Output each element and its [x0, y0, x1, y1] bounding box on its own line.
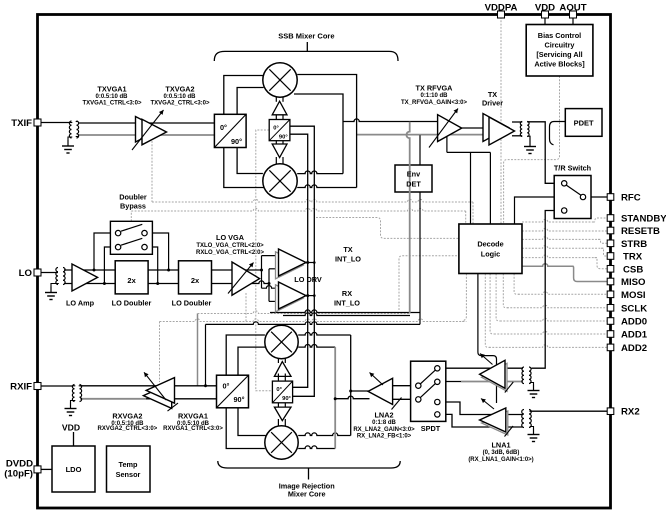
- wire TX top mixer output Q to vertical bus: [294, 94, 343, 174]
- wire LO DRV TX output stub: [305, 262, 314, 264]
- wire doubler bypass right upper: [145, 233, 169, 270]
- wire RX differential gray y=398.8: [80, 398, 146, 400]
- pin DVDD: [34, 466, 41, 473]
- wire T/R switch control from decode: [515, 197, 555, 224]
- svg-text:RX_LNA2_FB<1:0>: RX_LNA2_FB<1:0>: [357, 434, 412, 440]
- svg-text:RX: RX: [342, 289, 352, 298]
- wire SSB LO quadrature link (gray dashed vertical x=255.8): [256, 130, 273, 391]
- svg-text:MISO: MISO: [621, 277, 646, 288]
- svg-text:MOSI: MOSI: [621, 290, 646, 301]
- svg-text:Driver: Driver: [482, 99, 503, 108]
- wire LO differential lower y=283.5: [64, 281, 269, 284]
- mixer image rejection top: [265, 325, 298, 358]
- brace SSB mixer core: [214, 51, 398, 61]
- svg-text:Decode: Decode: [477, 240, 503, 249]
- pin right edge y=411.2: [607, 408, 614, 415]
- svg-text:ADD0: ADD0: [621, 317, 647, 328]
- wire black line y=315.5: [283, 313, 410, 316]
- svg-text:ADD2: ADD2: [621, 343, 647, 354]
- ground LNA1 transformer: [533, 429, 535, 435]
- wire ADD2 to decode: [485, 274, 491, 348]
- wire TX top mixer output I to vertical bus: [297, 75, 356, 188]
- block Env DET: [395, 165, 432, 192]
- svg-text:Active Blocks]: Active Blocks]: [534, 60, 585, 69]
- svg-text:PDET: PDET: [574, 119, 594, 128]
- wire CSB to decode: [522, 255, 597, 258]
- wire T/R switch to RFC pin: [586, 196, 608, 198]
- wire SSB output black main y=121.5: [343, 119, 438, 122]
- pin right edge y=218: [607, 215, 614, 222]
- amplifier TX Driver double triangle: [483, 114, 509, 142]
- pin right edge y=334: [607, 331, 614, 338]
- wire RX top mixer RF input y=347.1: [298, 345, 335, 348]
- wire corner leg x=205.5 down to RX line: [205, 324, 207, 385]
- amplifier RXVGA1/RXVGA2 double triangle: [143, 383, 171, 409]
- wire TX bottom mixer to I bus y=187.5: [297, 185, 356, 188]
- pin RXIF: [34, 383, 41, 390]
- wire RXVGA2 gain control leg (gray dashed): [159, 322, 161, 383]
- svg-text:RX_LNA2_GAIN<3:0>: RX_LNA2_GAIN<3:0>: [353, 427, 415, 433]
- svg-text:TXVGA1_CTRL<3:0>: TXVGA1_CTRL<3:0>: [82, 101, 142, 107]
- svg-text:TXIF: TXIF: [11, 118, 32, 129]
- wire RXVGA1 gain control leg (gray solid): [197, 314, 199, 386]
- wire SPDT to LNA2 upper: [393, 385, 416, 387]
- svg-text:0:0.5:10 dB: 0:0.5:10 dB: [95, 94, 128, 100]
- transformer RX upper input: [522, 367, 524, 384]
- arrow LO VGA gain: [228, 263, 254, 294]
- pin right edge y=294.3: [607, 291, 614, 298]
- wire LO pin to transformer: [41, 272, 58, 274]
- wire SCLK to decode: [503, 274, 509, 308]
- amplifier LO Amp triangle: [72, 264, 98, 291]
- svg-text:RXVGA2: RXVGA2: [112, 412, 142, 421]
- amplifier LO VGA triangle: [232, 262, 260, 295]
- wire ADD1 to decode: [490, 274, 496, 335]
- svg-text:Bypass: Bypass: [120, 202, 146, 211]
- RX LO quadrature box 0/90: [272, 381, 292, 403]
- svg-text:TXVGA1: TXVGA1: [97, 85, 126, 94]
- wire control bus TXVGA to decode logic y=203.5: [152, 199, 473, 202]
- wire DVDD pin to LDO: [41, 468, 52, 470]
- wire RX amp to SPDT lower black part: [440, 381, 461, 383]
- pin right edge y=243.3: [607, 240, 614, 247]
- wire long control line decode to RXVGA y=321.5: [462, 274, 466, 322]
- svg-text:RFC: RFC: [621, 193, 641, 204]
- svg-text:Bias Control: Bias Control: [538, 31, 581, 40]
- T/R switch poles: [562, 181, 567, 186]
- wire RXIF pin to transformer: [41, 385, 73, 387]
- wire RX 0/90 bottom port to lower mixer far: [226, 408, 265, 449]
- transformer TXIF input: [69, 121, 71, 138]
- wire TX 0/90 splitter bottom port to lower mixer far: [224, 148, 264, 188]
- wire TX driver output to transformer: [512, 121, 522, 123]
- SSB LO buffer up triangle: [275, 96, 277, 102]
- svg-text:90°: 90°: [231, 137, 242, 146]
- svg-text:SSB Mixer Core: SSB Mixer Core: [278, 32, 334, 41]
- block Decode Logic: [459, 224, 522, 274]
- svg-text:2x: 2x: [127, 276, 136, 285]
- wire LNA2 output upper: [351, 390, 369, 392]
- pin right edge y=256: [607, 253, 614, 260]
- slash LNA2 feedback: [392, 398, 402, 410]
- ground RX upper transformer: [533, 385, 535, 391]
- mixer SSB top: [263, 63, 297, 97]
- wire RX RF vertical bus x=350.7: [350, 335, 352, 436]
- block Temp Sensor: [107, 446, 151, 492]
- wire black line y=312.5: [270, 310, 421, 313]
- svg-text:LO VGA: LO VGA: [216, 233, 245, 242]
- wire control stepped line to decode left y=217/238.4: [316, 218, 459, 239]
- wire TX differential pair black y=123: [78, 122, 214, 124]
- wire RX amp to SPDT upper: [440, 367, 523, 369]
- wire AOUT pin into bias box: [572, 17, 574, 25]
- wire ADD0 to decode: [496, 274, 502, 322]
- svg-text:AOUT: AOUT: [559, 3, 586, 14]
- pin LO: [34, 269, 41, 276]
- amplifier TX RFVGA triangle: [438, 115, 462, 142]
- brace image rejection mixer core: [218, 461, 400, 468]
- block Bias Control Circuitry: [526, 25, 593, 77]
- svg-text:RXVGA1_CTRL<3:0>: RXVGA1_CTRL<3:0>: [163, 426, 223, 432]
- wire env det gray leg from black main x=409.7: [406, 122, 409, 314]
- amplifier LO DRV TX triangle: [276, 252, 304, 279]
- svg-text:SPDT: SPDT: [421, 424, 441, 433]
- ground RXIF transformer: [70, 403, 72, 409]
- svg-text:VDD: VDD: [535, 3, 555, 14]
- wire VDD to LDO: [73, 432, 75, 446]
- wire decode to LNA gain control: [478, 274, 497, 404]
- arrow LNA2 gain: [370, 373, 384, 386]
- svg-text:(RX_LNA1_GAIN<1:0>): (RX_LNA1_GAIN<1:0>): [468, 457, 533, 463]
- svg-text:90°: 90°: [279, 135, 288, 141]
- svg-text:CSB: CSB: [623, 264, 643, 275]
- wire RX 0/90 bottom port to lower mixer near: [238, 408, 266, 436]
- svg-text:RXIF: RXIF: [10, 382, 32, 393]
- svg-text:0:1:8 dB: 0:1:8 dB: [372, 420, 396, 426]
- svg-text:T/R Switch: T/R Switch: [554, 164, 591, 173]
- transformer RXIF output: [72, 385, 74, 402]
- block LDO: [52, 446, 95, 492]
- svg-text:LDO: LDO: [66, 465, 82, 474]
- bypass switch poles: [115, 230, 120, 235]
- wire TX RFVGA output to TX driver: [462, 127, 489, 129]
- transformer TX output: [520, 122, 522, 137]
- mixer SSB bottom: [263, 164, 297, 198]
- wire LO DRV input rail 1: [261, 256, 263, 289]
- pin VDD top: [542, 11, 549, 18]
- svg-text:LO Amp: LO Amp: [66, 299, 95, 308]
- wire TX LO feed vertical x=314.3: [290, 126, 314, 396]
- wire LO DRV input rail 2: [268, 269, 270, 302]
- wire RX top mixer RF input y=335: [298, 332, 351, 335]
- wire RFVGA sense to decode logic x=470.5: [470, 152, 472, 224]
- wire SPDT to LNA1 lower: [440, 414, 523, 427]
- svg-text:RXLO_VGA_CTRL<2:0>: RXLO_VGA_CTRL<2:0>: [196, 250, 265, 256]
- doubler bypass switch box: [110, 221, 152, 254]
- svg-text:SCLK: SCLK: [621, 303, 647, 314]
- RX LO buffer down triangle: [277, 403, 279, 408]
- arrow TXVGA gain: [132, 110, 164, 150]
- svg-text:Sensor: Sensor: [116, 470, 141, 479]
- SSB LO quadrature box 0/90: [269, 120, 290, 141]
- wire TX transformer to T/R switch: [527, 122, 561, 184]
- svg-text:0:1:10 dB: 0:1:10 dB: [420, 93, 448, 99]
- svg-text:LNA1: LNA1: [491, 441, 510, 450]
- svg-text:(0, 3dB, 6dB): (0, 3dB, 6dB): [483, 450, 520, 456]
- wire bias control to decode logic (gray dashed): [504, 76, 560, 224]
- TX 0/90 phase splitter box: [214, 114, 246, 147]
- svg-text:RXVGA2_CTRL<3:0>: RXVGA2_CTRL<3:0>: [98, 426, 158, 432]
- arrow RX upper amp gain: [480, 354, 493, 365]
- wire SPDT to LNA1 upper: [440, 402, 523, 415]
- ground TX output transformer: [527, 136, 530, 140]
- SPDT switch box: [411, 361, 446, 421]
- RX LO buffer up triangle: [277, 358, 279, 363]
- svg-text:Mixer Core: Mixer Core: [288, 490, 326, 499]
- wire RX2 pin to LNA1 transformer: [530, 410, 608, 412]
- svg-text:0:0.5:10 dB: 0:0.5:10 dB: [163, 94, 196, 100]
- SSB LO buffer down triangle: [275, 141, 277, 145]
- wire TXVGA gain control (gray dashed): [151, 141, 153, 202]
- svg-text:Circuitry: Circuitry: [544, 41, 575, 50]
- arrow RXVGA gain: [144, 372, 166, 400]
- wire LO DRV RX output stub: [305, 295, 314, 297]
- wire RX bottom mixer RF input y=435.5: [298, 433, 351, 436]
- wire SPDT to LNA2 lower: [393, 398, 416, 400]
- arrow TX RFVGA gain: [429, 109, 458, 148]
- svg-text:VDD: VDD: [62, 423, 80, 433]
- transformer LO input: [56, 268, 58, 285]
- wire RX differential black y=385.8: [80, 385, 217, 387]
- ground TXIF transformer: [67, 140, 69, 146]
- wire VDDPA supply line (gray dashed vertical): [500, 17, 502, 224]
- wire doubler bypass left lower: [104, 247, 118, 284]
- svg-text:LO Doubler: LO Doubler: [172, 299, 212, 308]
- svg-text:TX: TX: [343, 245, 352, 254]
- ground LO transformer: [50, 287, 52, 293]
- amplifier RX front-end upper triangle: [482, 363, 507, 391]
- pin right edge y=321: [607, 318, 614, 325]
- wire PDET coupler hook: [550, 122, 566, 145]
- svg-text:Doubler: Doubler: [119, 193, 147, 202]
- svg-text:TXLO_VGA_CTRL<2:0>: TXLO_VGA_CTRL<2:0>: [196, 243, 264, 249]
- svg-text:0°: 0°: [220, 123, 227, 132]
- amplifier LNA2 triangle: [368, 378, 393, 404]
- wire RX RF vertical bus x=335.2 (gray): [334, 347, 336, 448]
- pin right edge y=268.8: [607, 266, 614, 273]
- wire SSB output gray main y=134.6 to TX driver: [357, 134, 489, 136]
- svg-text:TX_RFVGA_GAIN<3:0>: TX_RFVGA_GAIN<3:0>: [401, 100, 468, 106]
- svg-text:Temp: Temp: [119, 460, 138, 469]
- svg-text:TRX: TRX: [623, 252, 643, 263]
- svg-text:0°: 0°: [276, 387, 282, 393]
- wire env det black leg from gray main x=420: [419, 135, 421, 324]
- SPDT switch poles: [435, 366, 440, 371]
- pin right edge y=281.5: [607, 278, 614, 285]
- wire doubler bypass right lower: [145, 247, 158, 284]
- T/R switch box: [554, 176, 591, 219]
- wire T/R switch RX throw to RX amp: [532, 211, 562, 369]
- wire RX amp to SPDT lower gray part: [461, 381, 523, 383]
- svg-text:90°: 90°: [233, 395, 244, 404]
- pin TXIF: [34, 119, 41, 126]
- wire black line y=324.4: [206, 322, 421, 325]
- wire TX 0/90 splitter bottom port to lower mixer near: [237, 148, 263, 174]
- svg-text:LNA2: LNA2: [374, 411, 393, 420]
- svg-text:DET: DET: [406, 180, 421, 189]
- wire VDD pin into bias box: [544, 17, 546, 25]
- pin right edge y=230.5: [607, 227, 614, 234]
- svg-text:(10pF): (10pF): [4, 469, 33, 480]
- amplifier TXVGA1/TXVGA2 double triangle: [136, 117, 161, 143]
- wire env tap corner down to decode x=490.4: [489, 152, 491, 224]
- svg-text:90°: 90°: [282, 396, 291, 402]
- svg-text:INT_LO: INT_LO: [335, 255, 361, 264]
- amplifier LO DRV RX triangle: [276, 285, 304, 312]
- wire TX 0/90 splitter top port I: [224, 76, 263, 115]
- svg-text:ADD1: ADD1: [621, 330, 648, 341]
- svg-text:LO: LO: [19, 268, 33, 279]
- svg-text:TX RFVGA: TX RFVGA: [416, 84, 454, 93]
- svg-text:RESETB: RESETB: [621, 226, 660, 237]
- svg-text:LO Doubler: LO Doubler: [112, 299, 152, 308]
- svg-text:0°: 0°: [223, 382, 230, 391]
- wire LNA2 output lower: [335, 396, 369, 399]
- svg-text:RX2: RX2: [621, 407, 640, 418]
- wire gray control line y=313.5: [198, 311, 411, 314]
- svg-text:LO DRV: LO DRV: [294, 275, 322, 284]
- pin VDDPA: [498, 11, 505, 18]
- wire MISO to decode (solid gray): [522, 264, 574, 267]
- wire STRB to decode: [522, 237, 601, 240]
- LO Doubler 2x box second: [179, 261, 212, 294]
- slash RXVGA1 feedback: [168, 403, 179, 411]
- slash LNA1: [505, 426, 514, 437]
- wire env detector tap from gray main: [446, 135, 448, 152]
- block PDET: [565, 109, 602, 137]
- svg-text:TXVGA2: TXVGA2: [165, 85, 194, 94]
- wire control line to decode left y=255.7: [399, 256, 459, 310]
- wire TRX to decode: [522, 246, 604, 249]
- svg-text:INT_LO: INT_LO: [334, 299, 360, 308]
- wire LO VGA gain control (gray dashed): [245, 293, 247, 322]
- svg-text:TXVGA2_CTRL<3:0>: TXVGA2_CTRL<3:0>: [150, 101, 210, 107]
- svg-text:0°: 0°: [273, 125, 279, 131]
- wire MOSI to decode: [514, 274, 520, 295]
- slash RX upper amp: [505, 382, 514, 393]
- svg-text:STANDBY: STANDBY: [621, 214, 666, 225]
- svg-text:2x: 2x: [191, 276, 200, 285]
- wire LO differential upper y=270: [64, 269, 262, 271]
- pin right edge y=347.4: [607, 344, 614, 351]
- svg-text:STRB: STRB: [621, 239, 647, 250]
- svg-text:VDDPA: VDDPA: [485, 3, 518, 14]
- wire doubler bypass left upper: [94, 233, 118, 270]
- svg-text:RXVGA1: RXVGA1: [178, 412, 208, 421]
- wire RX bottom mixer RF input y=448.5: [298, 446, 335, 449]
- wire RESETB to decode: [522, 228, 607, 231]
- wire control bus doubler bypass to decode logic y=212.8: [130, 211, 132, 221]
- transformer LNA1 input: [522, 410, 524, 428]
- wire TXIF pin to transformer: [41, 122, 70, 124]
- wire RX 0/90 top port to upper mixer far: [226, 335, 265, 375]
- wire TX LO feed vertical x=307.7: [290, 134, 308, 387]
- LO Doubler 2x box first: [115, 261, 148, 294]
- mixer image rejection bottom: [265, 426, 298, 459]
- pin AOUT: [570, 11, 577, 18]
- wire TX differential pair gray y=135: [78, 134, 214, 136]
- RX 0/90 phase splitter box: [217, 375, 249, 408]
- wire RX 0/90 top port to upper mixer near: [238, 347, 266, 375]
- arrow LNA1 gain: [481, 399, 494, 410]
- wire STANDBY to decode: [522, 219, 595, 222]
- amplifier LNA1 triangle: [482, 411, 508, 435]
- svg-text:Env: Env: [407, 170, 421, 179]
- svg-text:[Servicing All: [Servicing All: [536, 50, 582, 59]
- wire TX bottom mixer to Q bus y=173.6: [297, 171, 343, 174]
- pin right edge y=197: [607, 194, 614, 201]
- wire TX 0/90 splitter top port Q: [237, 88, 263, 115]
- pin right edge y=307.8: [607, 305, 614, 312]
- svg-text:Logic: Logic: [481, 250, 500, 259]
